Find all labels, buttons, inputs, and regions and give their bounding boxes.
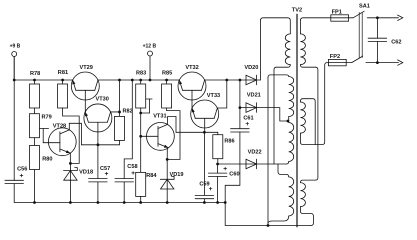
svg-text:R81: R81 — [58, 70, 68, 76]
svg-text:C59: C59 — [199, 181, 209, 187]
svg-text:VT29: VT29 — [80, 65, 93, 71]
svg-text:C61: C61 — [243, 116, 253, 122]
svg-text:VT32: VT32 — [185, 65, 198, 71]
svg-text:+9 В: +9 В — [10, 43, 21, 49]
svg-text:VD19: VD19 — [170, 172, 184, 178]
svg-text:R80: R80 — [42, 157, 52, 163]
svg-text:C56: C56 — [17, 167, 27, 173]
svg-text:R86: R86 — [224, 138, 234, 144]
svg-text:VT28: VT28 — [53, 123, 66, 129]
svg-text:R79: R79 — [42, 114, 52, 120]
svg-text:VD18: VD18 — [79, 170, 93, 176]
svg-text:R78: R78 — [30, 71, 40, 77]
svg-text:FP1: FP1 — [332, 10, 342, 16]
svg-text:R83: R83 — [136, 71, 146, 77]
svg-text:FP2: FP2 — [330, 54, 340, 60]
svg-text:R84: R84 — [146, 173, 157, 179]
svg-text:R82: R82 — [123, 108, 133, 114]
svg-text:SA1: SA1 — [359, 4, 370, 10]
svg-text:C62: C62 — [391, 40, 401, 46]
svg-text:C58: C58 — [127, 164, 137, 170]
svg-text:VD21: VD21 — [247, 93, 261, 99]
svg-text:VT31: VT31 — [153, 113, 166, 119]
svg-text:C60: C60 — [229, 171, 239, 177]
svg-text:TV2: TV2 — [292, 8, 302, 14]
svg-text:VD20: VD20 — [244, 65, 258, 71]
svg-text:+12 В: +12 В — [143, 43, 157, 49]
svg-text:VT33: VT33 — [207, 93, 220, 99]
svg-text:VD22: VD22 — [248, 149, 262, 155]
svg-text:C57: C57 — [100, 166, 110, 172]
svg-text:R85: R85 — [162, 71, 172, 77]
svg-text:VT30: VT30 — [96, 96, 109, 102]
